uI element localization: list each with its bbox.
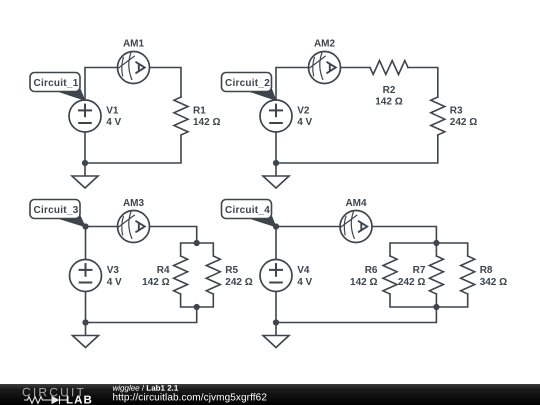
- label R2 value: [375, 85, 402, 108]
- wire bottom bar of parallel pair: [181, 294, 214, 307]
- wire top bar of parallel trio: [390, 243, 468, 256]
- label Circuit_4: [222, 200, 277, 228]
- wire V3 top: [85, 227, 87, 260]
- wire V1 bottom to ground node: [84, 132, 86, 163]
- svg-text:LAB: LAB: [66, 395, 93, 405]
- resistor R1: [174, 97, 188, 135]
- wire R7 top stub: [435, 243, 437, 256]
- wire AM1 right to R1 top: [150, 68, 182, 98]
- ammeter AM1: [118, 52, 150, 84]
- voltage source V2: [260, 100, 292, 132]
- junction dot bottom: [82, 319, 88, 325]
- logo diode triangle: [52, 396, 60, 404]
- svg-text:242 Ω: 242 Ω: [225, 277, 252, 288]
- ammeter AM3: [118, 211, 150, 243]
- wire top rail left: [86, 226, 118, 228]
- svg-text:http://circuitlab.com/cjvmg5xg: http://circuitlab.com/cjvmg5xgrff62: [112, 392, 267, 403]
- svg-text:AM4: AM4: [345, 198, 367, 209]
- wire R3 bottom to bottom rail: [276, 135, 438, 163]
- svg-text:R3: R3: [450, 106, 463, 117]
- svg-text:wigglee / Lab1 2.1: wigglee / Lab1 2.1: [112, 384, 178, 393]
- junction dot top: [273, 223, 279, 229]
- wire top bar of parallel pair: [181, 243, 214, 256]
- junction dot parallel top: [433, 240, 439, 246]
- junction dot parallel bottom: [433, 304, 439, 310]
- wire top rail left: [276, 226, 340, 228]
- svg-text:142 Ω: 142 Ω: [142, 277, 169, 288]
- resistor R7: [429, 256, 443, 294]
- resistor R6: [383, 256, 397, 294]
- wire R1 bottom to bottom rail: [85, 135, 181, 163]
- junction dot top: [82, 223, 88, 229]
- svg-text:242 Ω: 242 Ω: [450, 117, 477, 128]
- label V2 value: [297, 106, 312, 129]
- svg-text:V4: V4: [297, 265, 310, 276]
- svg-text:AM1: AM1: [123, 38, 145, 49]
- wire R2 right to R3 top: [408, 68, 438, 98]
- label R5 value: [225, 265, 252, 288]
- svg-text:Circuit_4: Circuit_4: [225, 205, 270, 216]
- resistor R3: [431, 97, 445, 135]
- svg-text:4 V: 4 V: [297, 277, 312, 288]
- svg-text:R4: R4: [157, 265, 170, 276]
- label V1 value: [106, 106, 121, 129]
- svg-text:242 Ω: 242 Ω: [398, 277, 425, 288]
- logo circuit doodle wire: [24, 396, 67, 404]
- svg-text:R5: R5: [225, 265, 238, 276]
- svg-text:AM3: AM3: [123, 198, 145, 209]
- wire bottom node to bottom rail: [86, 307, 197, 323]
- wire bottom node to bottom rail: [276, 307, 436, 323]
- svg-text:V2: V2: [297, 106, 310, 117]
- svg-text:342 Ω: 342 Ω: [480, 277, 507, 288]
- resistor R4: [174, 256, 188, 294]
- ground: [263, 163, 289, 188]
- wire bottom bar of parallel trio: [390, 294, 468, 307]
- wire V4 bottom to ground node: [275, 292, 277, 323]
- label V4 value: [297, 265, 312, 288]
- label R4 value: [142, 265, 170, 288]
- svg-text:4 V: 4 V: [106, 117, 121, 128]
- junction dot parallel bottom: [194, 304, 200, 310]
- wire AM4 right to parallel node: [372, 227, 436, 244]
- label R6 value: [350, 265, 378, 288]
- label V3 value: [107, 265, 122, 288]
- ground: [72, 163, 98, 188]
- svg-text:142 Ω: 142 Ω: [350, 277, 377, 288]
- wire AM2 right to R2 left: [341, 67, 371, 69]
- svg-text:R6: R6: [365, 265, 378, 276]
- voltage source V3: [70, 260, 102, 292]
- label Circuit_3: [30, 200, 86, 228]
- voltage source V4: [260, 260, 292, 292]
- svg-text:4 V: 4 V: [107, 277, 122, 288]
- svg-text:Circuit_3: Circuit_3: [33, 205, 78, 216]
- svg-text:Circuit_2: Circuit_2: [225, 78, 270, 89]
- label R7 value: [398, 265, 426, 288]
- wire V2 bottom to ground node: [275, 132, 277, 163]
- label R3 value: [450, 106, 477, 129]
- junction dot: [82, 160, 88, 166]
- ground: [73, 323, 99, 348]
- svg-text:R8: R8: [480, 265, 493, 276]
- junction dot parallel top: [194, 240, 200, 246]
- wire V2 top to top rail: [276, 68, 309, 101]
- svg-text:4 V: 4 V: [297, 117, 312, 128]
- svg-text:AM2: AM2: [314, 38, 336, 49]
- label Circuit_1: [30, 73, 86, 102]
- voltage source V1: [69, 100, 101, 132]
- label Circuit_2: [222, 73, 277, 102]
- svg-text:V1: V1: [106, 106, 119, 117]
- resistor R2: [370, 61, 408, 75]
- svg-text:142 Ω: 142 Ω: [193, 117, 220, 128]
- ammeter AM4: [340, 211, 372, 243]
- resistor R8: [461, 256, 475, 294]
- wire V4 top: [275, 227, 277, 260]
- svg-text:142 Ω: 142 Ω: [375, 96, 402, 107]
- svg-text:R1: R1: [193, 106, 206, 117]
- wire R7 bottom stub: [435, 294, 437, 307]
- ammeter AM2: [309, 52, 341, 84]
- svg-text:R2: R2: [383, 85, 396, 96]
- wire V1 top to top rail: [85, 68, 118, 101]
- wire AM3 right to parallel node: [150, 227, 197, 244]
- svg-text:V3: V3: [107, 265, 120, 276]
- label R8 value: [480, 265, 507, 288]
- ground: [263, 323, 289, 348]
- svg-text:R7: R7: [413, 265, 426, 276]
- resistor R5: [206, 256, 220, 294]
- wire V3 bottom to ground node: [85, 292, 87, 323]
- label R1 value: [193, 106, 220, 129]
- junction dot bottom: [273, 319, 279, 325]
- svg-text:Circuit_1: Circuit_1: [33, 78, 78, 89]
- junction dot: [273, 160, 279, 166]
